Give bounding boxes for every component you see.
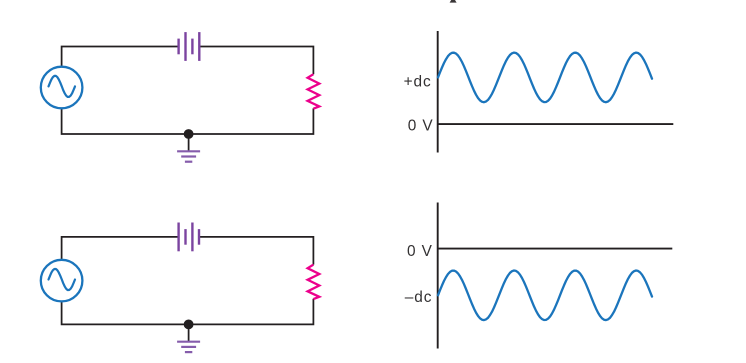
resistor R2 zigzag [308,265,320,300]
sine waveform riding on +dc [438,53,652,103]
AC source V1 circle [41,67,83,109]
0 V horizontal axis [438,248,673,250]
battery VDC2 bar 3 (long, positive) [191,223,193,252]
sine waveform riding on -dc [438,271,652,321]
battery VDC1 bar 4 (long, positive) [198,32,200,61]
ground stub wire [188,134,190,151]
wire bottom [62,108,314,134]
svg-text:0 V: 0 V [407,243,433,260]
ground symbol bar 3 [185,351,192,353]
battery VDC2 bar 2 (short, negative) [184,229,186,245]
battery VDC1 bar 2 (long, positive) [184,32,186,61]
wire top-right segment [200,237,313,265]
wire top-left segment [62,47,178,67]
cropped text remnant at top edge [450,0,457,3]
svg-text:0 V: 0 V [408,118,434,135]
wire top-right segment [200,47,313,75]
AC source V1 sine glyph [49,76,76,97]
vertical axis [437,203,439,349]
ground symbol bar 2 [181,346,196,348]
ground symbol bar 1 [177,150,200,152]
AC source V2 sine glyph [49,269,76,290]
battery VDC1 bar 1 (short, negative) [177,39,179,55]
junction node dot [184,320,194,330]
ground symbol bar 2 [181,155,196,157]
ground symbol bar 1 [177,341,200,343]
battery VDC2 bar 1 (long, positive) [177,223,179,252]
battery VDC1 bar 3 (short, negative) [191,39,193,55]
wire bottom [62,299,314,325]
vertical axis [437,31,439,153]
wire top-left segment [62,237,178,260]
junction node dot [184,129,194,139]
0 V horizontal axis [438,123,674,125]
ground stub wire [188,324,190,341]
svg-text:+dc: +dc [404,74,432,91]
svg-text:–dc: –dc [405,289,433,306]
battery VDC2 bar 4 (short, negative) [198,229,200,245]
AC source V2 circle [41,260,83,302]
resistor R1 zigzag [308,74,320,109]
ground symbol bar 3 [185,161,192,163]
